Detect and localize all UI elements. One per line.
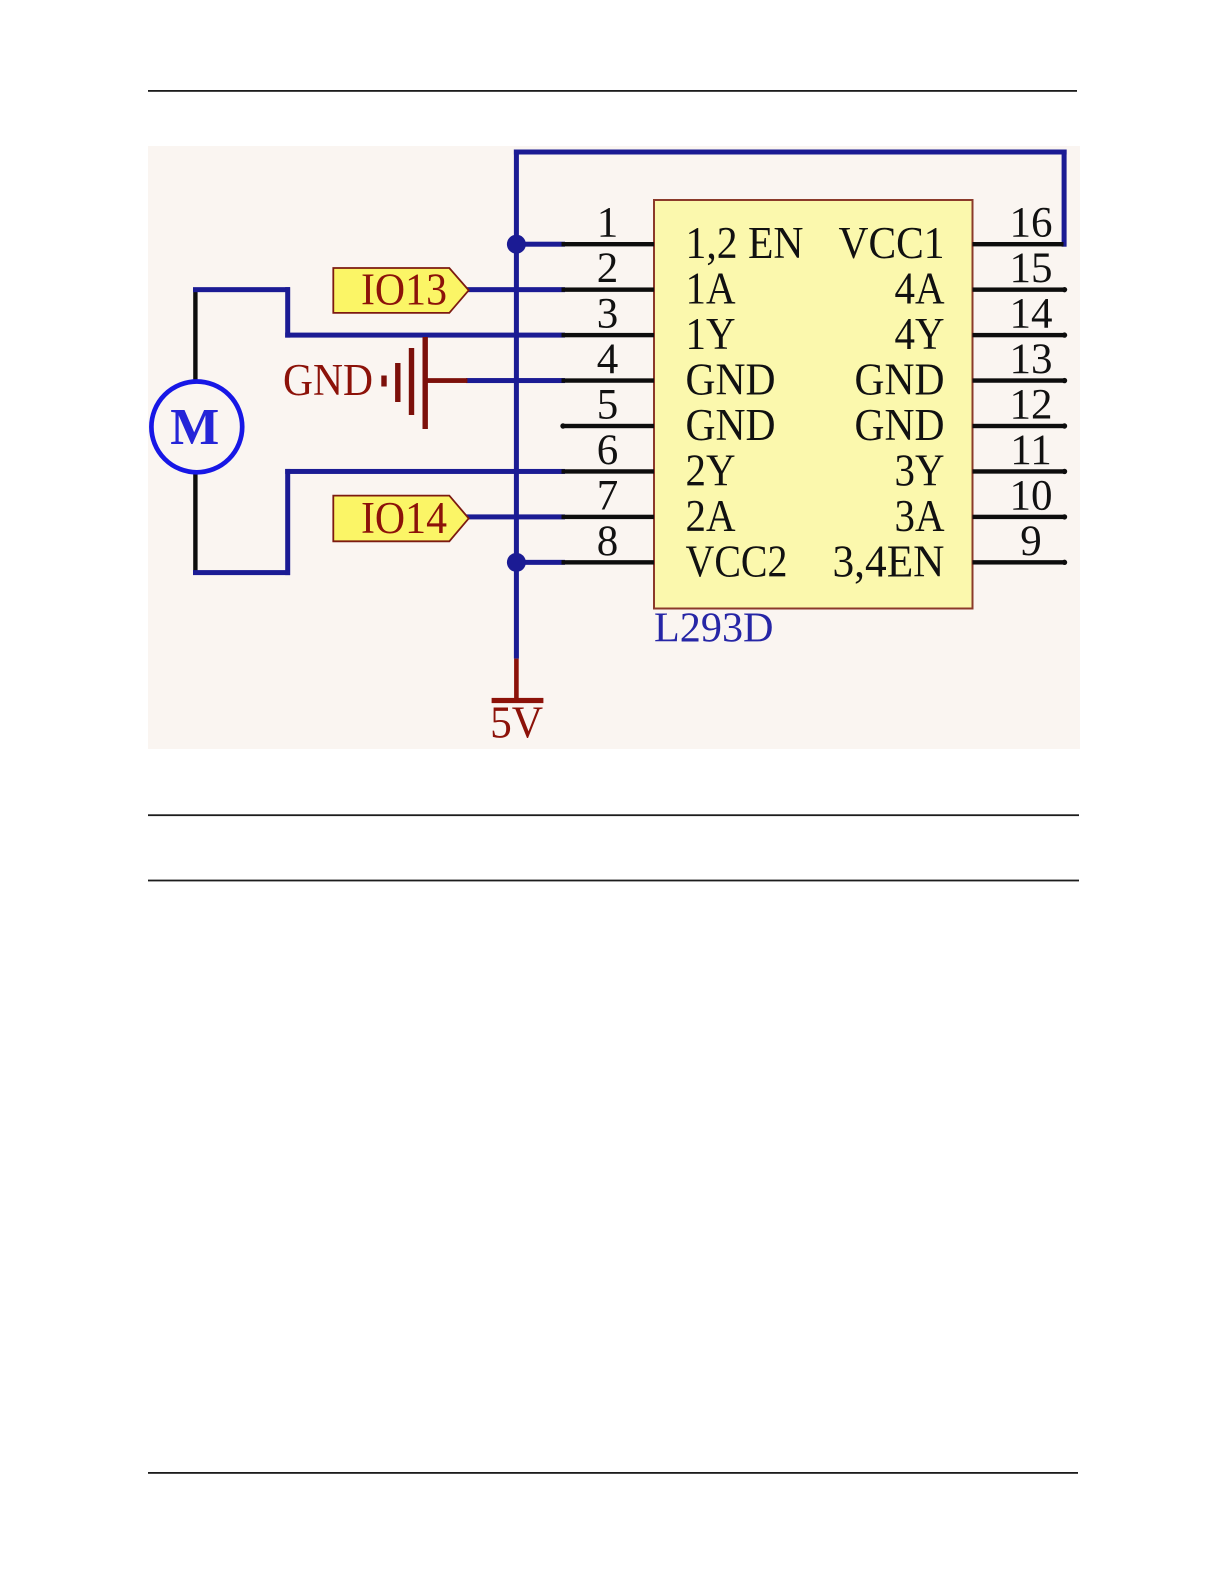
wire: 2Y horizontal to pin 6	[285, 469, 565, 474]
svg-text:1,2 EN: 1,2 EN	[686, 218, 804, 268]
svg-text:VCC2: VCC2	[686, 536, 788, 586]
svg-text:10: 10	[1010, 472, 1053, 519]
svg-text:16: 16	[1010, 200, 1053, 247]
motor M1 circle	[151, 382, 242, 473]
svg-text:5V: 5V	[490, 698, 543, 748]
svg-text:2A: 2A	[686, 491, 736, 541]
power port 5V stem vertical	[514, 659, 519, 701]
pin 14 open end dot	[1062, 332, 1067, 337]
pin 5 stub	[562, 424, 655, 428]
pin 10 open end dot	[1062, 514, 1067, 519]
svg-text:8: 8	[597, 518, 619, 565]
svg-text:1A: 1A	[686, 264, 736, 314]
svg-text:15: 15	[1010, 245, 1053, 292]
wire: 1Y horizontal to pin 3	[285, 333, 565, 338]
wire: pin8 from bus	[514, 560, 565, 565]
pin 15 open end dot	[1062, 287, 1067, 292]
page rule mid 1	[148, 814, 1079, 816]
pin 15 stub	[973, 287, 1064, 291]
motor lead bottom (black wire)	[193, 473, 197, 573]
pin 2 stub	[562, 287, 655, 291]
page rule top	[148, 90, 1077, 92]
svg-text:GND: GND	[855, 400, 945, 450]
svg-text:5: 5	[597, 382, 619, 429]
ground symbol bar 3	[409, 348, 414, 415]
junction dot pin 1 / bus	[507, 235, 526, 254]
page rule bottom	[148, 1472, 1078, 1474]
pin 7 stub	[562, 515, 655, 519]
ground symbol bar 2	[395, 363, 400, 402]
pin 16 stub	[973, 242, 1064, 246]
svg-text:4A: 4A	[895, 264, 945, 314]
pin 11 stub	[973, 469, 1064, 473]
IC U1 body L293D	[654, 200, 973, 609]
junction dot pin 8 / bus	[507, 553, 526, 572]
svg-text:13: 13	[1010, 336, 1053, 383]
svg-text:IO14: IO14	[361, 493, 447, 543]
net label IO14 flag	[333, 496, 468, 542]
pin 1 stub	[562, 242, 655, 246]
svg-text:1Y: 1Y	[686, 309, 736, 359]
svg-text:3Y: 3Y	[895, 445, 945, 495]
wire: pin1 from bus	[514, 242, 565, 247]
pin 6 stub	[562, 469, 655, 473]
wire: GND net blue segment to pin 4	[466, 378, 565, 383]
pin 13 stub	[973, 378, 1064, 382]
wire: motor bottom horizontal	[193, 570, 290, 575]
svg-text:3A: 3A	[895, 491, 945, 541]
wire: top bus horizontal	[514, 150, 1067, 155]
wire: 2Y corner vertical	[285, 469, 290, 575]
power port 5V bar	[492, 698, 544, 703]
ground symbol bar 1 (shortest)	[381, 376, 386, 387]
wire: main vertical bus 5V net	[514, 150, 519, 659]
pin 12 open end dot	[1062, 423, 1067, 428]
svg-text:9: 9	[1020, 518, 1042, 565]
wire: IO13 to pin 2 (1A)	[466, 287, 565, 292]
svg-text:11: 11	[1010, 427, 1051, 474]
ground symbol stem	[425, 378, 467, 383]
svg-text:3,4EN: 3,4EN	[833, 536, 945, 586]
pin 4 stub	[562, 378, 655, 382]
svg-text:GND: GND	[855, 355, 945, 405]
svg-text:GND: GND	[283, 355, 373, 405]
svg-text:4: 4	[597, 336, 619, 383]
svg-text:GND: GND	[686, 355, 776, 405]
pin 13 open end dot	[1062, 378, 1067, 383]
svg-text:L293D: L293D	[654, 606, 774, 652]
pin 12 stub	[973, 424, 1064, 428]
svg-text:7: 7	[597, 472, 619, 519]
svg-text:VCC1: VCC1	[839, 218, 945, 268]
wire: motor top corner vertical	[285, 287, 290, 337]
svg-text:6: 6	[597, 427, 619, 474]
motor lead top (black wire)	[193, 290, 197, 382]
pin 9 stub	[973, 560, 1064, 564]
pin 3 stub	[562, 333, 655, 337]
pin 10 stub	[973, 515, 1064, 519]
wire: motor top horizontal	[193, 287, 290, 292]
svg-text:4Y: 4Y	[895, 309, 945, 359]
svg-text:12: 12	[1010, 382, 1053, 429]
pin 11 open end dot	[1062, 469, 1067, 474]
svg-text:1: 1	[597, 200, 619, 247]
pin 8 stub	[562, 560, 655, 564]
svg-text:IO13: IO13	[361, 264, 447, 314]
svg-text:14: 14	[1010, 291, 1053, 338]
svg-text:2: 2	[597, 245, 619, 292]
pin 5 open end dot	[560, 423, 565, 428]
svg-text:2Y: 2Y	[686, 445, 736, 495]
wire: IO14 to pin 7 (2A)	[466, 514, 565, 519]
svg-text:3: 3	[597, 291, 619, 338]
pin 14 stub	[973, 333, 1064, 337]
svg-text:M: M	[170, 399, 219, 456]
wire: right vertical to pin 16	[1062, 150, 1067, 247]
schematic background	[148, 146, 1080, 749]
net label IO13 flag	[333, 268, 468, 313]
page rule mid 2	[148, 880, 1079, 882]
svg-text:GND: GND	[686, 400, 776, 450]
ground symbol bar 4 (longest)	[423, 337, 428, 429]
pin 9 open end dot	[1062, 560, 1067, 565]
